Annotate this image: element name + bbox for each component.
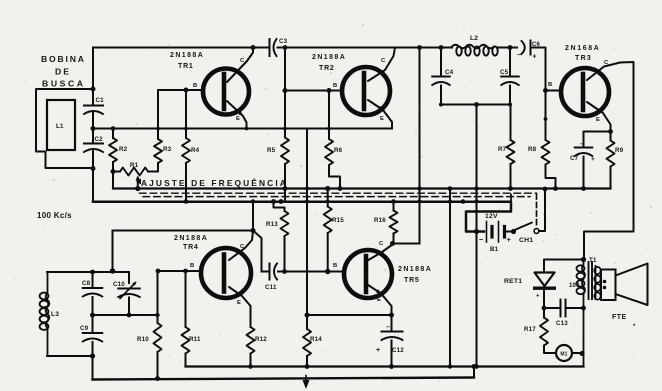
wire TR5 collector to x420 [393, 243, 420, 245]
svg-text:T1: T1 [589, 257, 597, 264]
svg-text:C12: C12 [392, 347, 404, 354]
svg-text:2N188A: 2N188A [398, 266, 431, 273]
wire vertical x307 [305, 129, 309, 330]
pin B of TR5 [333, 263, 337, 269]
svg-text:R17: R17 [524, 326, 536, 333]
wire supply vertical x420 [417, 48, 422, 244]
diode RET1 [504, 273, 556, 300]
wire bottom rail [93, 364, 477, 380]
svg-text:R6: R6 [334, 147, 343, 154]
svg-text:TR2: TR2 [319, 65, 334, 72]
svg-text:BUSCA: BUSCA [42, 79, 84, 89]
resistor R6 [325, 91, 343, 191]
capacitor C13 [542, 300, 586, 328]
svg-text:C10: C10 [113, 281, 125, 288]
svg-text:C13: C13 [556, 320, 568, 327]
wire TR4 collector lead [229, 231, 253, 261]
pin E of TR2 [380, 116, 384, 122]
svg-text:R1: R1 [130, 162, 139, 169]
svg-text:R4: R4 [191, 147, 200, 154]
svg-text:C3: C3 [279, 38, 288, 45]
wire diode to C13 row [543, 290, 545, 309]
capacitor C9 [80, 315, 102, 356]
wire TR5 collector lead [365, 241, 395, 262]
pin B of TR4 [190, 263, 194, 269]
svg-text:C4: C4 [445, 69, 454, 76]
svg-text:+: + [591, 156, 595, 163]
dashed mechanical link to CH1 [140, 193, 537, 228]
wire emitter line y315 [305, 313, 395, 318]
wire bias rail y128 [93, 128, 392, 130]
node top of search coil [91, 87, 96, 92]
pin C of TR5 [379, 241, 384, 247]
capacitor C12 electrolytic [376, 315, 404, 369]
wire TR2 emitter lead [368, 100, 392, 129]
svg-text:C: C [379, 241, 384, 247]
pin C of TR4 [240, 244, 245, 250]
wire TR4 base lead [156, 269, 201, 274]
node R4 crossing y128 [184, 127, 188, 131]
transformer T1 primary [577, 257, 597, 367]
svg-text:E: E [377, 297, 381, 303]
svg-text:2N188A: 2N188A [174, 235, 207, 242]
pin E of TR3 [596, 117, 600, 123]
resistor R15 [324, 186, 345, 272]
label 100 Kc/s [37, 211, 72, 220]
capacitor C4 [432, 48, 453, 105]
svg-text:12V: 12V [485, 213, 498, 220]
svg-text:C5: C5 [500, 69, 509, 76]
wire TR3 base lead [543, 88, 562, 93]
switch CH1 [511, 187, 547, 244]
svg-text:DE: DE [55, 67, 70, 77]
coil L3 [40, 272, 60, 356]
resistor R14 [303, 329, 322, 369]
svg-text:L2: L2 [470, 35, 478, 42]
svg-text:−: − [386, 324, 390, 331]
node R5 crossing y128 [283, 127, 287, 131]
svg-text:2N168A: 2N168A [565, 45, 599, 52]
wire top rail to TR3 base [531, 48, 546, 91]
svg-text:C1: C1 [96, 97, 105, 104]
svg-text:E: E [237, 300, 241, 306]
pin E of TR1 [236, 116, 240, 122]
svg-text:B: B [333, 83, 337, 89]
transformer T1 secondary [594, 266, 600, 300]
wire top rail segment 2 [278, 47, 453, 49]
svg-text:+: + [533, 54, 537, 61]
svg-text:C2: C2 [95, 136, 104, 143]
node between C1 and C2 [91, 126, 96, 131]
node TR1 emitter junction [245, 127, 249, 131]
node T1 primary top [581, 257, 586, 262]
svg-text:C8: C8 [82, 280, 91, 287]
svg-text:B: B [193, 83, 197, 89]
wire tank down to rail [92, 356, 94, 380]
label BOBINA DE BUSCA [41, 54, 85, 89]
resistor R4 [182, 90, 200, 204]
svg-text:R10: R10 [137, 336, 149, 343]
node x420 branch on top rail [417, 45, 422, 50]
svg-text:C7: C7 [570, 155, 579, 162]
transistor TR2 2N188A [312, 54, 390, 115]
capacitor C1 [84, 97, 104, 114]
wire tank top [47, 268, 129, 274]
svg-text:FTE: FTE [612, 314, 627, 321]
transistor TR4 2N188A [174, 235, 251, 298]
svg-text:TR5: TR5 [404, 277, 419, 284]
wire TR2 collector lead [368, 48, 395, 82]
wire bus y201 [93, 202, 511, 232]
pin C of TR1 [240, 58, 245, 64]
transistor TR1 2N188A [170, 52, 249, 115]
node R2 top [111, 126, 116, 131]
wire feedback top [113, 228, 256, 233]
resistor R9 [607, 132, 624, 189]
resistor R8 [528, 91, 558, 191]
coil L2 [452, 35, 498, 56]
capacitor C11 [262, 264, 328, 292]
wire tank mid line y315 [90, 313, 160, 318]
pin B of TR1 [193, 83, 197, 89]
label AJUSTE DE FREQUENCIA [136, 177, 286, 188]
svg-text:TR3: TR3 [575, 55, 591, 62]
svg-text:R12: R12 [255, 336, 267, 343]
wire diode branch [544, 260, 584, 273]
svg-text:100 Kc/s: 100 Kc/s [37, 211, 72, 220]
svg-text:RET1: RET1 [504, 278, 522, 285]
resistor R3 [148, 90, 172, 172]
svg-text:TR1: TR1 [178, 63, 193, 70]
node R3 crossing y128 [156, 127, 160, 131]
svg-text:R16: R16 [374, 217, 386, 224]
pin C of TR2 [381, 58, 386, 64]
resistor R10 [137, 271, 162, 381]
svg-text:−: − [517, 52, 521, 59]
svg-text:C11: C11 [265, 284, 277, 291]
resistor R16 [374, 199, 398, 243]
wire C4/C5 bottom junction line [439, 102, 512, 107]
svg-text:R9: R9 [615, 147, 624, 154]
wire TR3 emitter lead [587, 102, 613, 134]
wire vertical x450 [448, 186, 453, 368]
wire TR1 base lead [158, 88, 203, 93]
svg-text:R11: R11 [189, 336, 201, 343]
capacitor C5 [500, 48, 519, 105]
wire TR3 collector to output [584, 62, 634, 260]
svg-text:M1: M1 [560, 352, 567, 358]
capacitor C7 electrolytic [570, 132, 611, 191]
pin E of TR5 [377, 297, 381, 303]
wire top rail segment 3 [497, 47, 517, 49]
wire TR5 emitter lead [365, 283, 392, 315]
svg-text:+: + [507, 235, 512, 244]
svg-text:CH1: CH1 [519, 237, 533, 244]
svg-text:B1: B1 [490, 246, 499, 253]
wire left vertical with C1/C2 gaps [92, 48, 94, 202]
node C3 right / TR2 base branch [283, 45, 288, 50]
capacitor C10 variable [113, 272, 140, 315]
svg-text:R13: R13 [266, 221, 278, 228]
pin E of TR4 [237, 300, 241, 306]
svg-text:2N188A: 2N188A [170, 52, 203, 59]
transistor TR3 2N168A [561, 45, 609, 116]
wiper of R1 with arrow [135, 176, 140, 192]
wire L1 outer loop [36, 89, 93, 168]
capacitor C3 [270, 38, 288, 56]
svg-text:R15: R15 [332, 217, 344, 224]
node C5/C6 on top rail [508, 45, 513, 50]
svg-text:−: − [580, 141, 584, 148]
svg-text:TR4: TR4 [183, 244, 198, 251]
svg-text:+: + [376, 347, 380, 354]
svg-text:C9: C9 [80, 325, 89, 332]
battery B1 [479, 213, 512, 253]
resistor R13 [266, 202, 289, 274]
wire TR2 base lead [283, 88, 343, 93]
label 100 [569, 283, 580, 289]
wire TR2 base branch from C3 [284, 48, 286, 91]
svg-text:BOBINA: BOBINA [41, 54, 85, 64]
resistor R5 [267, 91, 289, 204]
capacitor C2 [84, 136, 103, 152]
resistor R11 [182, 271, 201, 367]
meter M1 [556, 345, 585, 361]
wire TR4 emitter lead [229, 287, 251, 327]
transistor TR5 2N188A [344, 250, 431, 298]
node TR1 collector on top rail [251, 45, 256, 50]
svg-text:+: + [536, 294, 540, 300]
svg-text:B: B [548, 82, 552, 88]
wire TR5 base wire [325, 269, 345, 274]
svg-text:−: − [479, 235, 484, 244]
speaker FTE [601, 264, 648, 331]
node below C2 [91, 166, 96, 171]
potentiometer R1 [111, 162, 149, 176]
node C4 on top rail [439, 45, 444, 50]
resistor R2 [109, 129, 128, 189]
ground tick mark [303, 376, 310, 390]
wire bias line y188 [113, 187, 611, 189]
node battery minus [461, 199, 479, 234]
svg-text:R3: R3 [163, 146, 172, 153]
svg-text:C6: C6 [532, 42, 541, 48]
resistor R7 [498, 105, 515, 191]
wire TR1 collector lead [227, 48, 253, 83]
svg-text:R14: R14 [310, 336, 322, 343]
wire vertical x476 battery minus [474, 105, 479, 369]
coil L1 (box symbol) [47, 100, 75, 150]
svg-text:R2: R2 [119, 146, 128, 153]
wire TR4 collector supply [251, 199, 255, 230]
svg-text:R5: R5 [267, 147, 276, 154]
svg-text:R7: R7 [498, 146, 507, 153]
wire top rail segment 1 [93, 47, 269, 49]
wire L3 bottom [47, 353, 95, 358]
svg-text:E: E [380, 116, 384, 122]
wire feedback down to tank [112, 231, 114, 271]
svg-text:B: B [190, 263, 194, 269]
capacitor C6 electrolytic [517, 41, 541, 61]
wire TR4 collector to C11 [253, 231, 262, 272]
capacitor C8 [82, 272, 102, 315]
svg-text:L3: L3 [51, 311, 59, 318]
pin B of TR2 [333, 83, 337, 89]
wire bottom line A [186, 365, 584, 367]
svg-text:L1: L1 [56, 123, 64, 130]
resistor R17 [524, 308, 556, 353]
svg-text:E: E [596, 117, 600, 123]
svg-text:2N188A: 2N188A [312, 54, 345, 61]
svg-text:E: E [236, 116, 240, 122]
svg-text:R8: R8 [528, 146, 537, 153]
pin C of TR3 [604, 60, 609, 66]
svg-text:C: C [381, 58, 386, 64]
transformer T1 core [589, 262, 593, 299]
pin B of TR3 [548, 82, 552, 88]
wire TR1 emitter lead [227, 101, 247, 129]
resistor R12 [247, 306, 268, 369]
svg-text:B: B [333, 263, 337, 269]
